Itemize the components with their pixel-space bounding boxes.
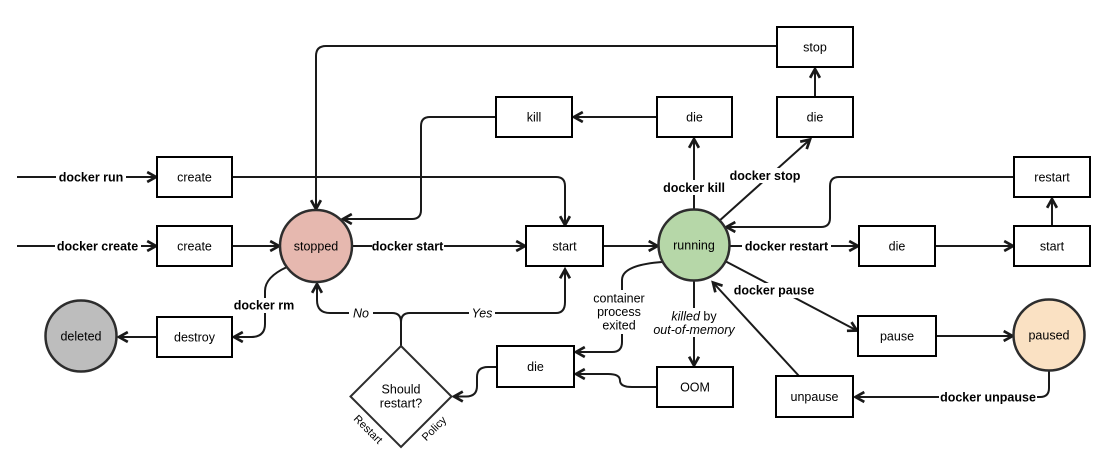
box: kill xyxy=(496,97,572,137)
box: stop xyxy=(777,27,853,67)
wire: running down to OOM (killed by out-of-memory) xyxy=(693,280,695,366)
box: pause xyxy=(858,316,936,356)
label: docker unpause xyxy=(939,389,1037,405)
box: destroy xyxy=(157,317,232,357)
wire: docker unpause from paused to unpause xyxy=(856,370,1050,397)
svg-text:docker run: docker run xyxy=(59,171,124,185)
svg-text:out-of-memory: out-of-memory xyxy=(653,323,735,337)
svg-text:die: die xyxy=(686,111,703,125)
label: killed by out-of-memory xyxy=(653,308,735,337)
wire: kill to stopped (elbow) xyxy=(343,117,496,219)
svg-text:process: process xyxy=(597,305,641,319)
wire: unpause diagonal up to running xyxy=(713,283,799,377)
node: paused (circle) xyxy=(1014,300,1085,371)
label: No xyxy=(349,306,373,321)
node: stopped (circle) xyxy=(280,210,352,282)
wire: create (top) elbow down into start box top xyxy=(232,177,565,225)
svg-text:restart?: restart? xyxy=(380,397,422,411)
svg-text:destroy: destroy xyxy=(174,331,216,345)
svg-text:docker kill: docker kill xyxy=(663,181,725,195)
wire: start (right) up to restart arrow xyxy=(1051,199,1053,226)
box: start (right) xyxy=(1014,226,1090,266)
svg-text:deleted: deleted xyxy=(60,330,101,344)
wire: docker kill from running up to die (middle) xyxy=(693,139,695,210)
wire: docker rm from stopped to destroy xyxy=(234,267,287,337)
wire: die (middle) to kill arrow xyxy=(574,116,657,118)
svg-text:start: start xyxy=(552,240,577,254)
label: docker start xyxy=(372,238,444,254)
label: Yes xyxy=(469,306,495,321)
label: docker restart xyxy=(742,238,831,254)
svg-text:kill: kill xyxy=(527,111,542,125)
wire: docker start from stopped to start xyxy=(352,245,525,247)
svg-text:No: No xyxy=(353,307,369,321)
svg-text:docker start: docker start xyxy=(372,240,444,254)
box: unpause xyxy=(776,376,853,417)
label: docker stop xyxy=(729,168,801,183)
box: restart xyxy=(1014,157,1090,197)
svg-text:docker create: docker create xyxy=(57,240,138,254)
label: docker rm xyxy=(233,298,295,313)
label: docker create xyxy=(55,237,141,254)
svg-text:Yes: Yes xyxy=(472,307,493,321)
svg-text:container: container xyxy=(593,292,644,306)
label: container process exited xyxy=(590,290,647,334)
svg-text:create: create xyxy=(177,240,212,254)
svg-text:restart: restart xyxy=(1034,171,1070,185)
svg-text:docker unpause: docker unpause xyxy=(940,391,1036,405)
svg-text:paused: paused xyxy=(1028,329,1069,343)
wire: die (bottom) to diamond s-elbow xyxy=(454,367,497,397)
label: Restart (rotated along diamond lower-left edge) xyxy=(351,413,385,447)
wire: restart to running (elbow) xyxy=(727,177,1015,227)
wire: die (right) to start (right) arrow xyxy=(935,245,1013,247)
box: die (middle) xyxy=(657,97,732,137)
svg-text:die: die xyxy=(527,360,544,374)
box: die (right) xyxy=(859,226,935,266)
wire: stop to stopped (long top elbow) xyxy=(316,46,777,209)
svg-text:die: die xyxy=(807,111,824,125)
svg-text:killed by: killed by xyxy=(671,310,717,324)
wire: docker restart from running to die (right) xyxy=(730,245,858,247)
svg-text:docker rm: docker rm xyxy=(234,299,294,313)
svg-text:docker restart: docker restart xyxy=(745,240,829,254)
wire: start to running arrow xyxy=(603,245,658,247)
svg-text:pause: pause xyxy=(880,330,914,344)
box: start (middle) xyxy=(526,226,603,266)
svg-text:docker pause: docker pause xyxy=(734,284,815,298)
box: die (bottom) xyxy=(497,346,574,387)
svg-text:start: start xyxy=(1040,240,1065,254)
wire: docker create line into create (middle-left) xyxy=(17,245,156,247)
svg-text:create: create xyxy=(177,171,212,185)
wire: pause to paused arrow xyxy=(936,335,1013,337)
svg-text:stop: stop xyxy=(803,41,827,55)
wire: docker run line into create (top) xyxy=(17,176,156,178)
box: create (middle) xyxy=(157,226,232,266)
box: create (top) xyxy=(157,157,232,197)
wire: destroy to deleted arrow xyxy=(119,336,157,338)
svg-text:die: die xyxy=(889,240,906,254)
node: deleted (circle) xyxy=(46,301,117,372)
decision diamond: Should restart? xyxy=(351,346,452,447)
label: docker run xyxy=(56,168,126,185)
wire: create (middle) to stopped arrow xyxy=(232,245,279,247)
svg-text:Should: Should xyxy=(382,383,421,397)
label: docker kill xyxy=(662,180,726,195)
svg-text:running: running xyxy=(673,239,715,253)
node: running (circle) xyxy=(659,210,730,281)
label: Policy (rotated along diamond lower-right edge) xyxy=(420,414,450,444)
svg-text:docker stop: docker stop xyxy=(730,169,801,183)
wire: die (upper right) to stop arrow xyxy=(814,69,816,97)
wire: diamond Yes branch up to start xyxy=(401,270,565,335)
wire: docker stop diagonal from running to die (upper right) xyxy=(718,140,810,223)
wire: docker pause diagonal from running to pause xyxy=(725,261,857,331)
wire: container process exited from running to die (bottom) xyxy=(576,262,662,352)
wire: diamond No branch up to stopped xyxy=(317,284,401,346)
wire: OOM to die (bottom) s-elbow xyxy=(576,374,657,387)
box: OOM xyxy=(657,367,733,407)
svg-text:exited: exited xyxy=(602,319,635,333)
box: die (upper right) xyxy=(777,97,853,137)
svg-text:stopped: stopped xyxy=(294,240,339,254)
svg-text:OOM: OOM xyxy=(680,381,710,395)
label: docker pause xyxy=(733,283,815,298)
svg-text:unpause: unpause xyxy=(791,390,839,404)
